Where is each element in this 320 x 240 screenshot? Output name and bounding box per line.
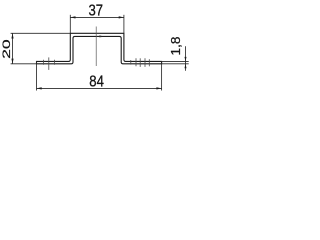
dim 20 extension line bottom (11, 63, 37, 65)
dim 1,8 label (169, 37, 183, 56)
dim 37 label (89, 2, 104, 19)
rail profile outline (37, 33, 162, 64)
dim 37 extension line right (123, 15, 125, 34)
svg-text:84: 84 (89, 73, 104, 90)
dim 1,8 line (185, 46, 187, 71)
right flange tick medium (135, 58, 137, 66)
dim 37 line (70, 16, 124, 18)
dim 37 arrow right (119, 16, 124, 18)
dim 20 arrow top (11, 33, 13, 38)
dim 20 arrow bottom (11, 59, 13, 64)
dim 84 extension line left (36, 61, 38, 90)
dim 84 label (89, 73, 104, 90)
mark on inner hat line (99, 35, 101, 37)
svg-text:1,8: 1,8 (169, 37, 183, 56)
dim 20 label (1, 39, 13, 59)
dim 20 extension line top (11, 32, 71, 34)
dim 84 arrow right (156, 87, 161, 89)
svg-text:37: 37 (89, 2, 104, 19)
left flange tick tall (48, 57, 50, 70)
dim 1,8 arrow down (185, 57, 187, 62)
dim 1,8 arrow up (185, 64, 187, 69)
right flange tick short (130, 60, 132, 65)
left flange tick short (54, 60, 56, 65)
dim 84 arrow left (37, 87, 42, 89)
dim 84 line (37, 87, 162, 89)
dim 84 extension line right (161, 61, 163, 90)
svg-text:20: 20 (1, 39, 13, 59)
right flange tick tall (139, 58, 141, 67)
right flange tick medium (148, 59, 150, 66)
dim 1,8 extension line bottom (162, 63, 189, 65)
dim 37 extension line left (69, 15, 71, 34)
centerline (95, 27, 97, 67)
left flange tick short (42, 60, 44, 65)
dim 1,8 extension line top (162, 60, 189, 62)
dim 20 line (12, 33, 14, 64)
dim 37 arrow left (70, 16, 75, 18)
right flange tick tall (144, 58, 146, 67)
